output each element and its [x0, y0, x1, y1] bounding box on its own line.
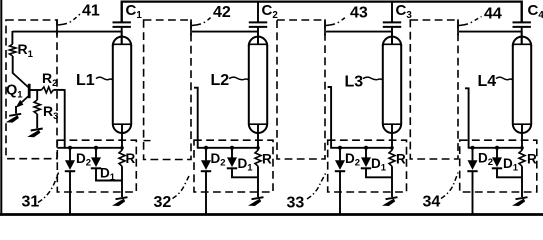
capacitor C3: [383, 2, 401, 27]
ground arrow (R box 31): [116, 197, 128, 199]
node: junction lamp 2 bottom: [256, 146, 260, 150]
svg-text:33: 33: [287, 195, 305, 212]
wire: cathode box 33 top rail: [331, 147, 392, 149]
leader squiggle L4: [496, 77, 513, 80]
svg-text:L1: L1: [76, 72, 95, 89]
corner tick box 41: [56, 19, 58, 35]
corner tick box 43: [324, 19, 326, 35]
svg-text:R: R: [396, 152, 406, 167]
block box 42 (driver): [144, 20, 191, 160]
node: junction D2 box 33: [338, 146, 342, 150]
wire: C4 to L4 top node: [521, 28, 523, 45]
svg-text:34: 34: [423, 194, 441, 211]
wire: feed to lamp 3 top node: [326, 31, 392, 33]
node: junction D2 box 31: [68, 146, 72, 150]
extra dash artifact near box 31 top right: [144, 140, 151, 142]
lamp L4 bottom electrode / wire to cathode box: [521, 124, 523, 148]
svg-text:31: 31: [22, 194, 40, 211]
block box 43 (driver): [277, 20, 325, 159]
resistor R2: [42, 87, 54, 93]
wire: cathode box 34 top rail: [469, 147, 522, 149]
diode D1 (box 32): [227, 148, 237, 169]
resistor R1: [11, 31, 13, 44]
svg-text:32: 32: [154, 194, 172, 211]
leader line 33: [307, 174, 326, 200]
diode D2 (box 33): [335, 148, 345, 171]
ground arrow (R3): [31, 129, 43, 131]
svg-text:L3: L3: [345, 74, 364, 91]
diode D2 (box 32): [201, 148, 211, 171]
diode D2 (box 34): [467, 148, 477, 171]
wire: cathode box 31 top rail: [57, 147, 122, 149]
node: junction D2 box 34: [471, 146, 475, 150]
block box 33 (cathode circuit): [328, 140, 407, 192]
block box 41 (driver): [6, 20, 57, 159]
resistor R (box 34): [519, 150, 525, 166]
lamp L1 bottom electrode / wire to cathode box: [121, 124, 123, 148]
leader squiggle L1: [96, 77, 113, 80]
lamp L1 tube: [113, 37, 131, 133]
node: junction D2 box 32: [204, 146, 208, 150]
ground arrow (R box 34): [516, 197, 528, 199]
node: junction D1 box 32: [230, 146, 234, 150]
leader line 34: [441, 173, 458, 199]
wire: driver box 42 output stub to cathode box 32: [194, 88, 198, 149]
svg-text:R: R: [527, 152, 537, 167]
wire: D1 cathode to R bottom: [497, 168, 522, 177]
wire: Q1 base lead: [29, 89, 41, 91]
transistor Q1: [13, 73, 30, 108]
block box 31 (cathode circuit): [57, 140, 136, 192]
svg-text:43: 43: [350, 5, 368, 22]
diode D1 (box 34): [492, 148, 502, 169]
corner tick box 42: [190, 19, 192, 35]
node: junction lamp 3 bottom: [390, 146, 394, 150]
node: junction lamp 4 bottom: [520, 146, 524, 150]
lamp L2 bottom electrode / wire to cathode box: [257, 124, 259, 148]
leader line 43: [326, 16, 347, 26]
wire: driver box 43 output stub to cathode box 33: [328, 87, 332, 149]
resistor R (box 33): [389, 150, 395, 166]
wire: D2 cathode to bottom bus: [69, 171, 71, 214]
wire: feed to lamp 1 top node: [12, 31, 121, 33]
ground arrow (Q1 emitter): [9, 114, 21, 116]
leader line 44: [459, 17, 482, 26]
lamp L4 tube: [513, 37, 531, 133]
node: junction D1 box 33: [364, 146, 368, 150]
svg-text:L2: L2: [211, 72, 230, 89]
ground arrow (R box 33): [386, 197, 398, 199]
lamp L2 top electrode: [257, 31, 259, 44]
capacitor C2: [249, 2, 267, 27]
svg-text:L4: L4: [478, 73, 497, 90]
leader line 32: [173, 174, 191, 199]
svg-text:44: 44: [484, 6, 502, 23]
diode D1 (box 31): [91, 148, 101, 169]
wire: D1 cathode to R bottom: [232, 168, 258, 177]
block box 44 (driver): [410, 20, 458, 159]
block box 32 (cathode circuit): [194, 140, 273, 192]
diode D1 (box 33): [361, 148, 371, 169]
lamp L1 top electrode: [121, 31, 123, 44]
leader squiggle L2: [229, 77, 249, 80]
resistor R3: [36, 90, 38, 100]
wire: left supply rail: [0, 0, 2, 215]
lamp L4 top electrode: [521, 31, 523, 44]
resistor R (box 32): [255, 150, 261, 166]
wire: D2 cathode to bottom bus: [472, 171, 474, 214]
wire: R2 to cathode box 31: [64, 89, 66, 148]
node: junction D1 box 34: [495, 146, 499, 150]
lamp L3 top electrode: [391, 31, 393, 44]
wire: C3 to L3 top node: [391, 28, 393, 45]
corner tick box 44: [457, 19, 459, 35]
capacitor C1: [113, 2, 131, 27]
svg-text:R: R: [262, 152, 272, 167]
svg-text:R: R: [126, 151, 136, 166]
leader line 41: [58, 14, 81, 26]
wire: top bus: [122, 2, 522, 22]
wire: D2 cathode to bottom bus: [205, 171, 207, 214]
leader squiggle L3: [363, 77, 383, 80]
wire: D1 cathode to R bottom: [96, 168, 122, 180]
wire: C2 to L2 top node: [257, 28, 259, 45]
lamp L3 tube: [383, 37, 401, 133]
lamp L3 bottom electrode / wire to cathode box: [391, 124, 393, 148]
node: junction lamp 1 bottom: [120, 146, 124, 150]
lamp L2 tube: [249, 37, 267, 133]
wire: C1 to L1 top node: [121, 28, 123, 45]
wire: D1 cathode to R bottom: [366, 168, 392, 177]
ground arrow (R box 32): [252, 197, 264, 199]
wire: feed to lamp 2 top node: [192, 31, 258, 33]
wire: D2 cathode to bottom bus: [339, 171, 341, 214]
wire: cathode box 32 top rail: [198, 147, 258, 149]
svg-text:41: 41: [82, 3, 100, 20]
leader line 42: [192, 16, 213, 26]
node: junction D1 box 31: [94, 146, 98, 150]
capacitor C4: [513, 2, 531, 27]
block box 34 (cathode circuit): [460, 140, 537, 192]
wire: bottom bus: [0, 213, 543, 216]
svg-text:42: 42: [213, 4, 231, 21]
wire: Q1 emitter to ground: [15, 106, 17, 114]
diode D2 (box 31): [65, 148, 75, 171]
wire: feed to lamp 4 top node: [459, 31, 522, 33]
leader line 31: [38, 173, 59, 203]
resistor R (box 31): [119, 150, 125, 166]
wire: driver box 44 output stub to cathode box 34: [465, 88, 469, 148]
